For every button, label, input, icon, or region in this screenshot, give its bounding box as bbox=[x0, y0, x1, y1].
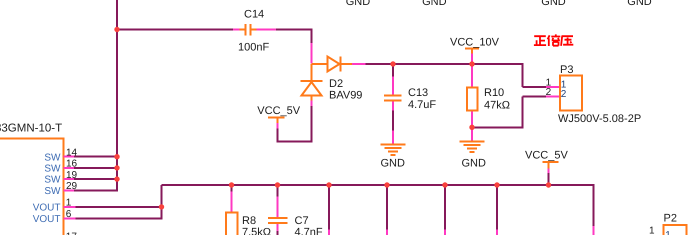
svg-text:VCC_5V: VCC_5V bbox=[525, 149, 568, 161]
junction VCC_10V R10 bbox=[469, 61, 474, 66]
junction bus drop2 bbox=[384, 182, 389, 187]
svg-text:R10: R10 bbox=[484, 87, 504, 99]
connector P3 bbox=[560, 76, 582, 111]
wire C13 to GND bbox=[392, 102, 394, 144]
svg-text:1: 1 bbox=[649, 226, 655, 235]
svg-text:7.5kΩ: 7.5kΩ bbox=[242, 226, 271, 235]
svg-text:GND: GND bbox=[422, 0, 447, 8]
junction bus C7 bbox=[275, 182, 280, 187]
junction C13 tap bbox=[390, 61, 395, 66]
junction bus R8 bbox=[229, 182, 234, 187]
pin VOUT 6 wire bbox=[63, 185, 162, 218]
wire top net corner down to P3 pin1 bbox=[523, 64, 560, 87]
svg-text:D2: D2 bbox=[329, 78, 343, 90]
svg-text:SW: SW bbox=[44, 152, 61, 163]
wire bus drop 4 bbox=[496, 185, 498, 235]
svg-text:GND: GND bbox=[627, 0, 652, 8]
junction at C14 tap bbox=[114, 27, 119, 32]
junction bus drop3 bbox=[442, 182, 447, 187]
resistor R10 with pins bbox=[467, 64, 478, 127]
junction SW14 bbox=[114, 154, 119, 159]
svg-text:R8: R8 bbox=[242, 215, 256, 227]
svg-text:83GMN-10-T: 83GMN-10-T bbox=[0, 123, 62, 135]
svg-text:29: 29 bbox=[66, 181, 78, 192]
svg-text:1: 1 bbox=[665, 230, 671, 235]
svg-text:1: 1 bbox=[66, 198, 72, 209]
svg-text:100nF: 100nF bbox=[238, 42, 269, 54]
svg-text:VOUT: VOUT bbox=[33, 202, 61, 213]
svg-text:SW: SW bbox=[44, 175, 61, 186]
svg-text:GND: GND bbox=[462, 157, 487, 169]
svg-text:47kΩ: 47kΩ bbox=[484, 100, 510, 112]
svg-text:SW: SW bbox=[44, 186, 61, 197]
pin SW 16 wire bbox=[63, 167, 117, 169]
pin SW 19 wire bbox=[63, 178, 117, 180]
junction SW19 bbox=[114, 176, 119, 181]
wire C14 right to D2 bbox=[257, 29, 312, 64]
svg-text:VCC_5V: VCC_5V bbox=[257, 105, 300, 117]
capacitor C7 with pins bbox=[268, 185, 288, 235]
pin VOUT 1 wire bbox=[63, 206, 161, 208]
junction bus VCC_5V bbox=[546, 182, 551, 187]
svg-text:VOUT: VOUT bbox=[33, 214, 61, 225]
svg-text:WJ500V-5.08-2P: WJ500V-5.08-2P bbox=[558, 113, 641, 125]
junction bus drop1 bbox=[326, 182, 331, 187]
wire bus end pink bbox=[593, 226, 595, 235]
svg-text:17: 17 bbox=[66, 231, 78, 235]
svg-text:14: 14 bbox=[66, 147, 78, 158]
svg-text:BAV99: BAV99 bbox=[329, 89, 362, 101]
junction VOUT1 bbox=[159, 204, 164, 209]
svg-text:C7: C7 bbox=[295, 215, 309, 227]
svg-text:VCC_10V: VCC_10V bbox=[450, 37, 500, 49]
svg-text:P2: P2 bbox=[664, 213, 677, 225]
wire bus drop 3 bbox=[444, 185, 446, 235]
pin SW 29 wire bbox=[63, 189, 118, 191]
ground GND under C13 bbox=[381, 144, 406, 155]
svg-text:C13: C13 bbox=[408, 87, 428, 99]
wire D2 cathode to top net bbox=[352, 63, 524, 65]
junction bus drop4 bbox=[494, 182, 499, 187]
wire bus drop 2 bbox=[386, 185, 388, 235]
connector P2 bbox=[664, 225, 687, 239]
svg-text:19: 19 bbox=[66, 170, 78, 181]
svg-text:P3: P3 bbox=[560, 64, 573, 76]
svg-text:SW: SW bbox=[44, 164, 61, 175]
svg-text:GND: GND bbox=[541, 0, 566, 8]
wire output bus bbox=[162, 185, 595, 226]
svg-text:C14: C14 bbox=[244, 9, 264, 21]
resistor R8 with pin bbox=[226, 185, 238, 239]
svg-text:16: 16 bbox=[66, 159, 78, 170]
power port VCC_5V lower bbox=[542, 162, 558, 185]
svg-text:2: 2 bbox=[546, 87, 552, 98]
junction R10 bottom bbox=[469, 125, 474, 130]
diode D2 dual BAV99 bbox=[301, 57, 353, 101]
ground GND under R10 bbox=[460, 141, 485, 152]
wire C13 tap bbox=[392, 64, 394, 95]
junction SW16 bbox=[114, 165, 119, 170]
power port VCC_10V bbox=[465, 49, 479, 65]
power port VCC_5V upper bbox=[268, 118, 285, 129]
IC U1 body edge bbox=[0, 138, 63, 236]
svg-text:6: 6 bbox=[66, 209, 72, 220]
capacitor C14 bbox=[240, 24, 257, 36]
wire bus drop 1 bbox=[328, 185, 330, 235]
svg-text:4.7uF: 4.7uF bbox=[408, 99, 436, 111]
chinese red text zheng-bei-ya bbox=[534, 34, 573, 46]
wire R10 junction to P3 pin2 bbox=[472, 97, 560, 129]
svg-text:GND: GND bbox=[346, 0, 371, 8]
wire main vertical net SW bbox=[116, 0, 118, 190]
svg-text:4.7nF: 4.7nF bbox=[295, 226, 323, 235]
svg-text:2: 2 bbox=[561, 89, 567, 100]
capacitor C13 bbox=[384, 96, 402, 101]
svg-text:GND: GND bbox=[381, 157, 406, 169]
wire VCC_5V to D2 anode bbox=[277, 101, 313, 143]
wire R10 bottom to GND bbox=[471, 127, 473, 140]
pin SW 14 wire bbox=[63, 156, 117, 158]
wire C14 left segment bbox=[117, 29, 240, 31]
